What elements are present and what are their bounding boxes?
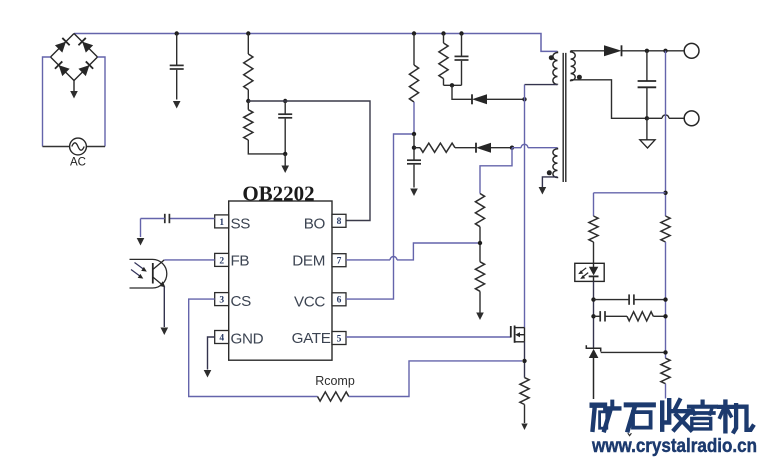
pin 4 box (GND) xyxy=(215,331,229,344)
LED inside optocoupler xyxy=(593,263,595,267)
node DEM tap xyxy=(478,241,482,245)
pin 5 box (GATE) xyxy=(332,332,346,345)
capacitor C1 (input bulk) xyxy=(175,31,179,35)
AC source V1 xyxy=(70,138,87,155)
svg-text:FB: FB xyxy=(231,252,250,269)
LED emission arrows xyxy=(581,268,587,273)
svg-text:5: 5 xyxy=(337,334,342,344)
resistor R3 xyxy=(475,194,484,227)
svg-text:2: 2 xyxy=(219,256,224,266)
ground arrow below C2 xyxy=(284,154,286,166)
output terminal + xyxy=(684,43,699,58)
svg-text:CS: CS xyxy=(231,293,252,310)
wire GATE pin 5 to MOSFET gate xyxy=(346,336,511,338)
ground arrow at bridge negative output xyxy=(73,81,75,92)
capacitor C5 (output) xyxy=(646,51,648,81)
ground arrow below R12 xyxy=(521,424,527,431)
optocoupler U2 phototransistor enclosure xyxy=(130,259,167,288)
transformer T1 core xyxy=(562,53,564,182)
svg-text:SS: SS xyxy=(231,216,251,233)
watermark Chinese characters xyxy=(592,400,753,431)
zener diode D7 xyxy=(586,345,600,351)
transformer secondary winding xyxy=(571,51,576,81)
ground arrow below GND pin xyxy=(204,370,212,378)
wire node to VCC divider xyxy=(480,148,512,194)
wire source down xyxy=(524,342,526,378)
wire: main HV rail xyxy=(74,34,558,52)
resistor R6 xyxy=(414,147,420,149)
wire VCC pin 6 xyxy=(346,134,414,299)
resistor R7 (clamp) xyxy=(441,31,445,35)
pin 2 box (FB) xyxy=(215,253,229,266)
svg-text:7: 7 xyxy=(337,257,342,267)
svg-text:6: 6 xyxy=(337,296,342,306)
svg-text:GND: GND xyxy=(231,330,264,347)
wire drain vertical xyxy=(524,85,526,328)
ground symbol (open triangle) xyxy=(646,118,648,140)
ground arrow below C1 xyxy=(173,101,181,109)
resistor R8 xyxy=(589,216,598,242)
wire feedback rail vertical xyxy=(665,51,667,216)
optocoupler U2 LED box xyxy=(575,263,604,281)
pin 6 box (VCC) xyxy=(332,293,346,306)
svg-text:4: 4 xyxy=(219,333,224,343)
wire CS pin 3 xyxy=(189,299,318,396)
resistor R10 xyxy=(661,216,670,242)
tiny arrow remnant under watermark xyxy=(628,433,632,435)
pin 1 box (SS) xyxy=(215,215,229,228)
svg-text:DEM: DEM xyxy=(292,253,325,270)
svg-text:AC: AC xyxy=(70,157,86,169)
diode D4 (bridge lower-right) xyxy=(78,65,89,76)
resistor R5 xyxy=(412,31,416,35)
svg-text:BO: BO xyxy=(304,216,326,233)
svg-text:VCC: VCC xyxy=(294,293,325,310)
svg-text:3: 3 xyxy=(219,296,224,306)
wire FB pin 2 to opto collector xyxy=(164,259,214,261)
wire DEM pin 7 with crossover hop xyxy=(346,259,390,261)
wire to aux winding with hop over drain line xyxy=(512,147,521,149)
diode D4 (clamp) xyxy=(471,94,473,104)
svg-text:Rcomp: Rcomp xyxy=(315,374,355,388)
transformer primary winding xyxy=(553,51,558,84)
svg-text:1: 1 xyxy=(219,218,224,228)
svg-text:OB2202: OB2202 xyxy=(242,182,314,206)
wire: divider tap to BO pin 8 xyxy=(248,101,370,221)
bridge rectifier diamond xyxy=(51,34,98,81)
capacitor C3 (VCC) xyxy=(407,159,421,161)
wire clamp join xyxy=(444,84,462,86)
op-amp/controller U1 OB2202 body xyxy=(229,201,332,360)
ground arrow below C8 xyxy=(137,238,145,246)
transistor Q1 (MOSFET) xyxy=(510,326,512,337)
wire AC right leg xyxy=(98,57,106,147)
ground arrow below R4 xyxy=(476,313,484,321)
svg-text:8: 8 xyxy=(337,217,342,227)
diode D1 (bridge upper-left) xyxy=(55,42,66,53)
polarity dot aux xyxy=(547,170,552,175)
wire zener to divider xyxy=(601,351,666,353)
capacitor C7 xyxy=(594,315,601,317)
node VCC xyxy=(412,132,416,136)
resistor R1 xyxy=(246,31,250,35)
pin 7 box (DEM) xyxy=(332,254,346,267)
pin 8 box (BO) xyxy=(332,214,346,227)
capacitor C8 (soft start) xyxy=(164,214,166,223)
pin 3 box (CS) xyxy=(215,293,229,306)
output terminal - xyxy=(684,111,699,126)
capacitor C2 xyxy=(283,99,287,103)
wire GND pin 4 xyxy=(208,337,215,370)
wire SS pin 1 xyxy=(170,218,215,220)
ground arrow below C3 xyxy=(410,189,418,197)
wire Rcomp to MOSFET source xyxy=(349,361,522,397)
wire LED cathode down xyxy=(593,281,595,348)
wire feedback top horizontal xyxy=(594,192,666,194)
resistor R2 xyxy=(244,110,253,140)
diode D2 (bridge upper-right) xyxy=(82,42,93,53)
capacitor C6 xyxy=(594,299,630,301)
polarity dot secondary xyxy=(577,75,582,80)
ground arrow below aux winding xyxy=(539,187,547,195)
wire output negative with hop xyxy=(647,117,662,119)
capacitor C4 (clamp) xyxy=(459,31,463,35)
wire aux bottom to ground xyxy=(542,177,557,187)
svg-text:www.crystalradio.cn: www.crystalradio.cn xyxy=(591,436,757,457)
resistor Rcomp xyxy=(318,392,349,401)
diode D6 (output rectifier) xyxy=(604,45,622,56)
wire AC left leg xyxy=(43,57,51,147)
diode D5 xyxy=(475,143,477,153)
optocoupler U2 phototransistor xyxy=(152,263,154,284)
polarity dot primary xyxy=(549,55,554,60)
diode D3 (bridge lower-left) xyxy=(59,65,70,76)
light arrows into phototransistor xyxy=(135,263,145,270)
resistor R11 xyxy=(661,358,670,384)
wire opto emitter to ground xyxy=(163,287,165,328)
resistor R4 xyxy=(475,262,484,292)
transformer aux winding xyxy=(553,148,558,178)
wire secondary top xyxy=(571,50,604,52)
resistor R9 xyxy=(627,312,653,321)
node: divider tap xyxy=(246,99,250,103)
wire primary bottom to drain xyxy=(525,84,558,86)
resistor R12 (sense) xyxy=(520,378,529,405)
ground arrow below opto emitter xyxy=(161,328,169,336)
wire secondary bottom to output xyxy=(571,80,647,119)
svg-text:GATE: GATE xyxy=(292,330,331,347)
